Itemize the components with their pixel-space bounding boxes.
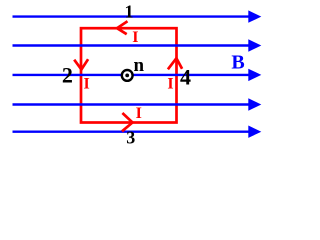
current loop (red rectangle) [81, 28, 177, 122]
normal vector symbol (circle with dot) [122, 70, 133, 81]
current arrow on side 4 (right, pointing up) [168, 58, 182, 69]
svg-text:2: 2 [62, 62, 73, 87]
field line 4 [13, 98, 262, 110]
svg-text:I: I [167, 75, 173, 92]
field line 2 [13, 39, 262, 51]
current arrow on side 2 (left, pointing down) [74, 59, 88, 69]
field line 3 [13, 69, 262, 81]
current arrow on side 1 (top, pointing left) [117, 21, 128, 34]
svg-text:I: I [136, 105, 142, 122]
svg-text:B: B [231, 52, 244, 74]
svg-text:n: n [134, 55, 145, 76]
svg-text:4: 4 [180, 64, 191, 89]
field line 1 [13, 10, 262, 22]
field line 5 [13, 126, 262, 138]
svg-text:I: I [132, 29, 138, 46]
svg-text:1: 1 [125, 2, 134, 22]
current arrow on side 3 (bottom, pointing right) [122, 113, 133, 131]
svg-text:3: 3 [126, 128, 135, 148]
svg-text:I: I [83, 75, 89, 92]
